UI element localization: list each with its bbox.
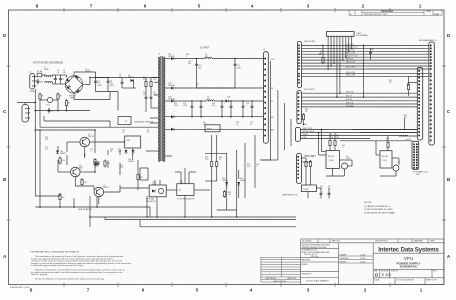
- drive transformer T2 box: [118, 117, 131, 125]
- output connector J3: [264, 52, 269, 144]
- resistor R40: [322, 56, 324, 64]
- transistor Q5: [393, 165, 399, 171]
- capacitor C11: [234, 62, 237, 67]
- component value labels: [44, 49, 407, 196]
- inductor L3: [207, 100, 215, 101]
- transistor Q1: [80, 137, 90, 147]
- post regulator U3: [177, 184, 194, 196]
- capacitor C12: [191, 104, 194, 109]
- svg-text:6: 6: [142, 288, 145, 293]
- connector J403: [295, 127, 300, 141]
- resistor R3: [57, 93, 59, 101]
- zener D12: [225, 182, 228, 185]
- resistor R33: [329, 139, 331, 147]
- resistor R35: [387, 141, 389, 149]
- svg-text:B: B: [447, 177, 451, 182]
- capacitor C5 (filter electrolytic): [94, 79, 97, 84]
- wire lower mid verticals: [205, 135, 255, 217]
- svg-text:A: A: [447, 254, 451, 259]
- capacitor C4: [48, 108, 51, 113]
- svg-text:C: C: [3, 109, 7, 114]
- connector J402: [297, 91, 302, 124]
- wire selectable: [302, 158, 311, 185]
- diode D12a: [125, 150, 128, 153]
- svg-text:FORM 4-0362 C (7/81): FORM 4-0362 C (7/81): [10, 287, 30, 289]
- svg-text:8: 8: [30, 288, 33, 293]
- resistor R11: [94, 158, 96, 166]
- svg-text:6: 6: [144, 4, 147, 9]
- rectifier D8: [171, 100, 174, 103]
- resistor R30: [302, 113, 304, 121]
- keyboard connector J502: [412, 141, 419, 169]
- junction dots bus: [319, 45, 352, 98]
- svg-text:8: 8: [36, 4, 39, 9]
- wire snubber: [122, 78, 151, 113]
- wire rail2: [175, 87, 264, 89]
- wire input links: [37, 75, 67, 84]
- connector J2 (lower left): [22, 105, 29, 123]
- wire rail3: [175, 100, 264, 102]
- rectifier D9b: [171, 115, 174, 118]
- resistor R20: [211, 160, 213, 168]
- rectifier D9c: [171, 128, 174, 131]
- diode D13: [237, 182, 240, 185]
- svg-text:1: 1: [420, 288, 423, 293]
- wire +12V feed: [340, 140, 412, 142]
- transistor Q4: [342, 163, 348, 169]
- transistor Q3: [94, 187, 104, 197]
- capacitor C7: [121, 80, 124, 85]
- notes: [364, 202, 396, 215]
- resistor R13: [137, 173, 139, 181]
- wire U8: [376, 136, 399, 176]
- connector J1 (AC input): [30, 74, 35, 90]
- capacitor C16: [242, 104, 245, 109]
- bridge rectifier BR1: [65, 72, 86, 97]
- capacitor C10: [195, 62, 198, 67]
- fuse F1: [37, 73, 42, 77]
- header P401: [327, 32, 355, 37]
- svg-text:2: 2: [364, 288, 367, 293]
- svg-text:D: D: [447, 33, 451, 38]
- resistor R41: [407, 83, 409, 91]
- svg-text:B: B: [3, 177, 7, 182]
- resistor R2: [39, 93, 41, 101]
- resistor R15: [59, 193, 61, 201]
- svg-text:4: 4: [251, 4, 254, 9]
- wire control routing: [35, 111, 296, 227]
- small box T3: [140, 168, 148, 180]
- title block: [301, 239, 444, 285]
- capacitor C9: [150, 95, 153, 100]
- capacitor C8: [145, 95, 148, 100]
- capacitor C6 (filter electrolytic): [107, 79, 110, 84]
- wire feedback verticals: [260, 61, 291, 160]
- resistor R12: [104, 160, 106, 168]
- rectifier D7: [171, 87, 174, 90]
- connector J404 selectable: [297, 154, 302, 184]
- capacitor C20: [97, 161, 100, 166]
- VCA regulator U4: [326, 151, 340, 169]
- connector J401: [298, 41, 302, 87]
- wire bus group A: [302, 45, 429, 76]
- wire vertical feed: [363, 45, 365, 97]
- capacitor C15: [230, 104, 233, 109]
- wire verticals below +12 rail: [197, 59, 236, 89]
- snubber diode D5: [131, 79, 134, 82]
- optical isolator U2: [149, 185, 166, 197]
- wire +12V rail: [175, 58, 264, 60]
- wire cap drops: [192, 101, 252, 117]
- diode D11: [132, 150, 135, 153]
- resistor R21: [216, 160, 218, 168]
- wire primary rails: [74, 72, 162, 111]
- transformer T1: [158, 57, 165, 162]
- svg-text:3: 3: [307, 288, 310, 293]
- line filter L1: [45, 75, 53, 76]
- wire video group: [301, 130, 418, 139]
- svg-text:4: 4: [250, 288, 253, 293]
- resistor R7: [150, 80, 152, 88]
- svg-text:C: C: [447, 109, 451, 114]
- svg-text:7: 7: [90, 4, 93, 9]
- wire isolator links: [120, 168, 217, 217]
- capacitor C1: [54, 77, 57, 82]
- inductor L2: [205, 57, 213, 58]
- capacitor C14: [221, 104, 224, 109]
- svg-text:5: 5: [198, 4, 201, 9]
- junction dots bottom bus: [35, 58, 253, 218]
- svg-text:5: 5: [196, 288, 199, 293]
- varistor RV1: [37, 79, 40, 84]
- resistor R31: [305, 160, 307, 168]
- svg-text:1: 1: [419, 4, 422, 9]
- resistor R4: [65, 99, 67, 107]
- wire VCA: [326, 133, 352, 176]
- zener VR1: [56, 151, 59, 154]
- motherboard connector J503: [417, 67, 422, 140]
- rectifier D6: [171, 57, 174, 60]
- resistor R34: [334, 139, 336, 147]
- wire VCA feeds: [319, 130, 327, 156]
- resistor R22: [223, 190, 225, 198]
- resistor R6: [145, 80, 147, 88]
- capacitor C40: [369, 50, 372, 55]
- reference box U7: [125, 136, 141, 148]
- capacitor C13: [200, 104, 203, 109]
- wire mid-right links: [352, 83, 417, 137]
- disclaimer text block: [31, 251, 132, 281]
- application table: [261, 257, 301, 282]
- transistor Q2: [71, 167, 81, 177]
- thermistor RT1: [47, 97, 52, 102]
- svg-text:D: D: [3, 33, 7, 38]
- resistor R14: [81, 178, 83, 186]
- capacitor C2: [59, 77, 62, 82]
- capacitor C21: [95, 162, 98, 167]
- capacitor C30: [320, 191, 323, 196]
- svg-text:3: 3: [307, 4, 310, 9]
- wire bus group C: [302, 93, 418, 107]
- transformer T1 right pins: [165, 59, 264, 157]
- resistor R10: [59, 157, 61, 165]
- svg-text:7: 7: [87, 288, 90, 293]
- motherboard connector J504: [429, 42, 434, 145]
- driver U5 75462: [301, 185, 316, 192]
- svg-text:2: 2: [362, 4, 365, 9]
- transformer T1 left pins: [146, 78, 158, 152]
- regulator U8: [380, 151, 392, 168]
- revision strip top right: [349, 10, 442, 16]
- regulator U6 box: [205, 125, 220, 132]
- resistor R32: [309, 160, 311, 168]
- diode D9: [226, 100, 229, 103]
- wire lower-left: [35, 89, 161, 127]
- capacitor C31: [328, 191, 331, 196]
- svg-text:A: A: [3, 254, 7, 259]
- capacitor C17: [251, 104, 254, 109]
